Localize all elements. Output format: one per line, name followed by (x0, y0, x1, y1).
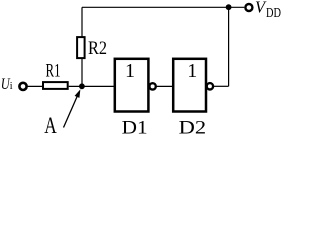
gate D2 output bubble (207, 83, 213, 89)
arrowhead (75, 89, 81, 98)
wire R1 to D1 input (69, 85, 114, 87)
resistor R2 (77, 37, 85, 58)
resistor R1 (43, 82, 68, 89)
svg-text:A: A (44, 113, 57, 136)
wire right vertical up to top rail (228, 7, 230, 86)
svg-text:R1: R1 (46, 61, 61, 82)
wire R2 bottom to node A (81, 59, 83, 87)
svg-text:D2: D2 (179, 118, 207, 137)
wire D1 output bubble to D2 input (156, 85, 172, 87)
svg-text:i: i (10, 81, 13, 92)
svg-text:1: 1 (125, 60, 135, 82)
inverter gate D2 box (173, 59, 206, 112)
arrow line to node A (64, 95, 79, 128)
node A junction dot (79, 83, 85, 89)
svg-text:D1: D1 (122, 118, 148, 137)
input terminal circle (19, 83, 26, 90)
wire input terminal to R1 (27, 85, 43, 87)
VDD terminal circle (245, 4, 252, 11)
gate D1 output bubble (149, 83, 155, 89)
wire D2 output bubble to corner (214, 85, 229, 87)
svg-text:DD: DD (266, 6, 281, 21)
wire top horizontal (82, 6, 244, 8)
svg-text:1: 1 (187, 60, 197, 82)
junction dot top rail (226, 4, 232, 10)
inverter gate D1 box (115, 59, 149, 112)
wire left vertical to R2 top (81, 7, 83, 37)
svg-text:R2: R2 (88, 38, 107, 59)
